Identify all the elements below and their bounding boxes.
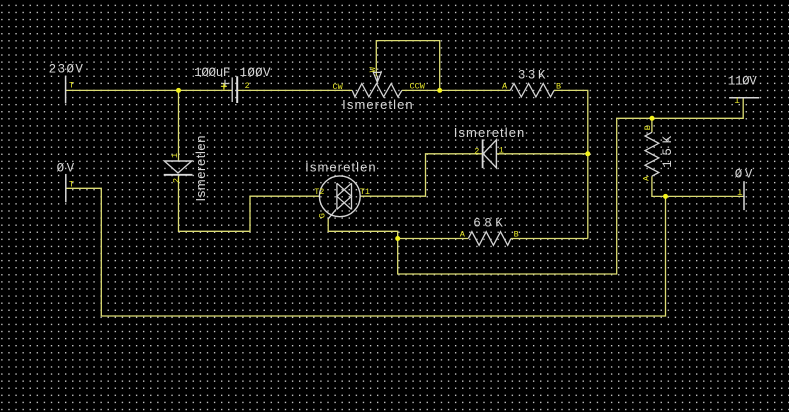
- port 110V terminal bar: [729, 97, 759, 99]
- diode Ismeretlen cathode bar: [482, 139, 484, 168]
- svg-text:2: 2: [474, 146, 479, 156]
- svg-text:T: T: [69, 180, 74, 190]
- wire pot CCW to 33K A: [402, 89, 510, 91]
- svg-text:W: W: [368, 66, 378, 72]
- wire diode pin1 to node: [496, 153, 587, 155]
- svg-text:T1: T1: [360, 187, 370, 197]
- wire bottom return: [66, 188, 666, 316]
- port 0V right terminal bar: [743, 181, 745, 210]
- resistor 68K zigzag: [468, 232, 511, 246]
- wire 33K B to corner down to diode node: [554, 90, 588, 238]
- svg-text:33K: 33K: [518, 68, 546, 82]
- junction node E: [650, 116, 655, 121]
- resistor 33K zigzag: [510, 84, 554, 97]
- svg-text:2: 2: [245, 81, 250, 91]
- resistor 15K zigzag vertical: [645, 132, 659, 176]
- pin label + of capacitor yellow: [221, 83, 227, 89]
- capacitor 100uF right plate: [236, 76, 238, 103]
- svg-text:Ismeretlen: Ismeretlen: [342, 97, 413, 112]
- svg-text:68K: 68K: [473, 217, 503, 231]
- svg-text:A: A: [460, 229, 466, 239]
- svg-text:1ØØuF: 1ØØuF: [194, 66, 230, 80]
- junction node B: [437, 88, 442, 93]
- junction node C: [585, 151, 590, 156]
- triac triangle left-pointing: [337, 183, 352, 209]
- triac triangle right-pointing: [337, 183, 352, 209]
- junction node F: [663, 194, 668, 199]
- svg-text:T: T: [735, 95, 740, 105]
- diode triangle: [483, 140, 496, 168]
- wire T1 to diode pin2: [360, 154, 482, 196]
- wire zener bottom to T2: [179, 175, 320, 232]
- svg-text:23ØV: 23ØV: [49, 62, 84, 76]
- port 0V left terminal bar: [65, 174, 67, 202]
- wire pot wiper loop: [376, 41, 439, 91]
- svg-text:A: A: [641, 175, 651, 181]
- triac gate lead: [328, 209, 336, 219]
- wire cap to pot: [237, 89, 352, 91]
- svg-text:CW: CW: [333, 82, 344, 92]
- zener diode Ismeretlen triangle: [164, 161, 191, 173]
- svg-text:15K: 15K: [661, 135, 675, 167]
- svg-text:T2: T2: [314, 187, 324, 197]
- svg-text:B: B: [556, 82, 561, 92]
- svg-text:2: 2: [171, 178, 181, 183]
- wire triac gate run: [328, 98, 743, 274]
- triac left bar: [336, 183, 338, 209]
- triac Ismeretlen circle: [319, 176, 360, 217]
- wire zener branch from junction: [178, 90, 180, 161]
- wire gate node to 68K A: [398, 238, 469, 240]
- potentiometer Ismeretlen zigzag: [352, 84, 402, 97]
- svg-text:G: G: [317, 213, 327, 218]
- svg-text:Ismeretlen: Ismeretlen: [305, 159, 376, 174]
- svg-text:1ØØV: 1ØØV: [240, 66, 271, 80]
- svg-text:11ØV: 11ØV: [728, 75, 757, 89]
- potentiometer wiper arrow: [373, 71, 381, 82]
- capacitor 100uF left plate: [231, 77, 233, 102]
- svg-text:B: B: [514, 229, 519, 239]
- junction node A: [176, 88, 181, 93]
- svg-text:1: 1: [499, 145, 504, 155]
- svg-text:T: T: [69, 81, 74, 91]
- svg-text:B: B: [643, 125, 653, 130]
- triac right bar: [351, 183, 353, 209]
- svg-text:Ismeretlen: Ismeretlen: [193, 136, 208, 202]
- junction node D: [395, 236, 400, 241]
- svg-text:CCW: CCW: [410, 81, 426, 91]
- capacitor polarity plus gray: [221, 80, 228, 87]
- wire 110V node to 15K top: [651, 118, 653, 132]
- svg-text:1: 1: [170, 153, 180, 158]
- svg-text:T: T: [737, 187, 742, 197]
- wire 68K B to node: [511, 238, 588, 240]
- zener diode cathode bar: [164, 174, 193, 176]
- svg-text:Ismeretlen: Ismeretlen: [454, 125, 525, 140]
- svg-text:A: A: [502, 82, 508, 92]
- wire 15K bottom rail: [652, 176, 744, 196]
- port 230V terminal bar: [65, 76, 67, 104]
- wire main top rail: [66, 89, 232, 91]
